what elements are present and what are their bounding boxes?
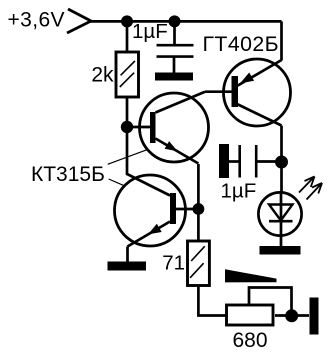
svg-text:+3,6V: +3,6V [8, 9, 65, 32]
node junction dot at 2k top [121, 15, 133, 27]
light emission arrow 1 [299, 177, 315, 193]
svg-text:КТ315Б: КТ315Б [31, 163, 105, 186]
resistor R2 71 [188, 241, 210, 286]
wire Q2 emitter rail down to R2 [197, 164, 200, 240]
wire Q2 base [127, 126, 150, 129]
LED VD1 [258, 192, 301, 247]
terminal bar (output) [310, 298, 319, 335]
pointer line to Q2 [108, 150, 147, 165]
pointer line to Q3 [109, 179, 124, 185]
svg-text:71: 71 [162, 252, 185, 275]
capacitor C2 1uF (right, horizontal) [229, 145, 282, 178]
wire R2 bottom to R3 left [198, 287, 225, 316]
transistor Q2 KT315B (middle) [140, 92, 209, 164]
wire Q2 collector to Q1 base [205, 90, 232, 93]
node junction dot Q2 base [121, 121, 133, 133]
ground (Q3 emitter) [108, 262, 147, 271]
node junction dot C2 right [275, 156, 288, 169]
input terminal arrow +3,6V [67, 9, 91, 33]
svg-text:680: 680 [233, 329, 268, 352]
wire from top rail to R1 top [126, 21, 129, 53]
wire top rail down to Q1 emitter [280, 21, 283, 60]
adjustment wedge [225, 269, 277, 282]
transistor Q3 KT315B (bottom, mirrored) [115, 175, 186, 247]
wire Q1 collector down to LED [280, 126, 283, 193]
svg-text:1µF: 1µF [132, 20, 168, 43]
wire Q3 emitter to ground [126, 247, 129, 263]
svg-text:1µF: 1µF [221, 180, 257, 203]
wire R1 bottom to node [126, 97, 129, 130]
light emission arrow 2 [307, 183, 323, 200]
ground (C1) [155, 73, 193, 81]
resistor R1 2k [116, 52, 139, 97]
node junction dot at C1 top [169, 15, 181, 27]
wire top rail [89, 20, 282, 23]
wire node to Q3 collector [127, 127, 170, 196]
ground (LED) [260, 246, 301, 255]
transistor Q1 GT402B (PNP top right) [224, 59, 291, 126]
ground (C2, sideways) [219, 144, 229, 178]
wire R3 right to terminal [275, 314, 309, 317]
svg-text:2k: 2k [91, 64, 114, 87]
resistor R3 680 (horizontal) [227, 305, 274, 325]
node junction dot emitter/base/R2 [193, 203, 205, 215]
wiper tap wire of R3 [249, 288, 292, 316]
capacitor C1 1uF (top) [157, 21, 194, 73]
node junction dot tap/output [285, 309, 298, 322]
wire Q3 base [176, 208, 198, 211]
svg-text:ГТ402Б: ГТ402Б [203, 32, 279, 56]
